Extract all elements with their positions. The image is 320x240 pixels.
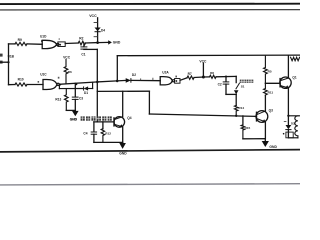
svg-text:R8: R8 [210, 71, 214, 75]
svg-text:R15: R15 [245, 126, 251, 130]
node input stub from left edge [0, 61, 9, 63]
svg-text:VCC: VCC [89, 14, 97, 18]
svg-text:C3: C3 [79, 96, 83, 100]
diode D2 [126, 78, 131, 83]
ground arrow bottom right [262, 141, 269, 147]
svg-text:GND: GND [70, 117, 78, 121]
wire Q3 emitter down [264, 122, 266, 139]
wire Q1 base [265, 82, 280, 84]
ground arrow right [108, 40, 112, 44]
svg-text:U1D: U1D [40, 34, 47, 38]
diode D1 [83, 86, 85, 90]
svg-text:VCC: VCC [63, 56, 71, 60]
wire node to GND arrow [98, 41, 109, 43]
ground arrow bottom middle [119, 143, 126, 149]
pin mark U1D input [41, 40, 43, 42]
wire R8 to corner [216, 75, 236, 77]
diode D3 [287, 116, 289, 125]
resistor R7 [187, 76, 194, 79]
resistor R14 vertical [235, 105, 238, 115]
pin 8 mark [58, 77, 60, 79]
resistor R9 [15, 42, 27, 45]
wire R15 bottom to GND node [243, 138, 265, 140]
svg-text:GND: GND [269, 145, 277, 149]
wire U1C output top [59, 82, 97, 84]
wire node A to D2 [97, 80, 125, 82]
wire coil bottom [288, 137, 298, 139]
wire R13 C3 bottoms [66, 109, 75, 111]
svg-text:D2: D2 [132, 73, 136, 77]
pin box U1D output [58, 42, 65, 47]
border frame top line 1 [0, 3, 300, 5]
wire VCC drop [202, 63, 204, 77]
nand gate U1C [43, 80, 57, 90]
wire rail corner down to D2 node [116, 56, 118, 81]
relay coil K1 [295, 116, 298, 138]
pin tick [140, 78, 142, 80]
svg-text:R13: R13 [55, 97, 61, 101]
wire R2 to node [86, 42, 98, 44]
wire R9 to U1D [27, 43, 42, 45]
svg-text:Q1: Q1 [292, 76, 296, 80]
border frame top line 2 [0, 9, 300, 11]
svg-text:R5: R5 [268, 70, 272, 74]
wire to R9 [9, 43, 16, 45]
border frame bottom line 2 (gray) [0, 184, 300, 185]
svg-text:Q4: Q4 [127, 116, 131, 120]
nand gate U2A [160, 77, 172, 85]
wire Q3 collector up [264, 96, 266, 112]
svg-text:U1C: U1C [40, 73, 47, 77]
wire left vertical branch [8, 44, 10, 85]
svg-text:C2: C2 [218, 83, 222, 87]
wire to R8 [203, 76, 209, 78]
transistor Q3 [256, 111, 268, 123]
wire Q1 collector to rail [287, 56, 289, 78]
wire Q4 emitter down [122, 127, 124, 142]
wire R7 to VCC node [194, 76, 203, 79]
svg-text:GND: GND [113, 41, 121, 45]
resistor R11 vertical [264, 83, 268, 95]
svg-text:GND: GND [119, 152, 127, 156]
capacitor C4 [93, 122, 95, 132]
wire U2A to R7 [180, 78, 187, 81]
wire feedback right end [92, 82, 94, 88]
pin mark above U2A box [175, 76, 177, 78]
wire down to R14 [235, 94, 237, 105]
wire feedback bottom [59, 88, 83, 90]
resistor R5 vertical [264, 56, 268, 83]
svg-text:R7: R7 [188, 72, 192, 76]
pin box U2A output [175, 79, 180, 84]
wire D2 to U2A [131, 79, 160, 81]
node junction dot [96, 41, 99, 44]
svg-text:D1: D1 [84, 91, 88, 95]
wire VCC vertical [97, 18, 99, 43]
wire to relay coil [288, 115, 299, 117]
border frame bottom line 1 [0, 150, 300, 152]
svg-text:R6: R6 [68, 70, 72, 74]
svg-text:R9: R9 [18, 38, 22, 42]
wire C1 bottom to vertical A [84, 48, 97, 50]
svg-text:D4: D4 [101, 28, 105, 32]
resistor R6 vertical [64, 59, 68, 84]
wire R10 to U1C [27, 84, 43, 86]
diode D4 [95, 28, 101, 32]
pin mark 6 at left edge [0, 61, 3, 64]
svg-text:R2: R2 [79, 36, 83, 40]
wire run B from node A corner [97, 90, 149, 92]
pin mark 5 at left edge [0, 54, 3, 57]
resistor R2 [78, 41, 85, 45]
svg-text:C1: C1 [81, 53, 85, 57]
switch S1 [235, 76, 237, 82]
svg-text:Q3: Q3 [269, 109, 273, 113]
capacitor C2 [225, 77, 227, 82]
wire U1D to R2 [65, 42, 78, 45]
relay switch label [240, 80, 254, 83]
svg-text:R14: R14 [238, 106, 244, 110]
resistor R13 vertical [65, 89, 69, 111]
wire vertical A down to Q4 base node [96, 49, 98, 122]
power rail top [117, 54, 300, 57]
svg-text:U2A: U2A [162, 71, 169, 75]
resistor R15 branch [242, 116, 244, 125]
capacitor C1 [83, 43, 85, 47]
svg-text:R10: R10 [18, 78, 24, 82]
transistor Q1 [280, 77, 291, 88]
wire run C to Q3 base [149, 114, 256, 116]
svg-text:S1: S1 [241, 84, 245, 88]
transistor Q4 [94, 121, 114, 123]
wire C2/S1 bottom node [226, 93, 236, 95]
resistor R12 vertical [102, 122, 104, 129]
wire Q1 emitter down [287, 88, 289, 116]
pin 9 mark [38, 81, 40, 83]
wire bottom node [94, 141, 123, 143]
pin tick [94, 36, 98, 38]
capacitor C3 [74, 83, 76, 97]
wire feedback loop left end [58, 84, 60, 88]
ground arrow left [72, 111, 79, 116]
svg-text:C4: C4 [83, 132, 87, 136]
wire Q4 collector up to run B [122, 91, 124, 116]
relay coil sawtooth right edge [291, 57, 300, 60]
resistor R8 [210, 75, 217, 78]
pin tick [94, 22, 98, 24]
svg-text:R11: R11 [268, 91, 274, 95]
nand gate U1D [42, 40, 56, 48]
wire lower branch to R10 [9, 84, 16, 86]
resistor R10 [15, 83, 27, 86]
svg-text:D3: D3 [291, 121, 295, 125]
svg-text:R12: R12 [105, 131, 111, 135]
wire vertical B to C [148, 91, 150, 114]
